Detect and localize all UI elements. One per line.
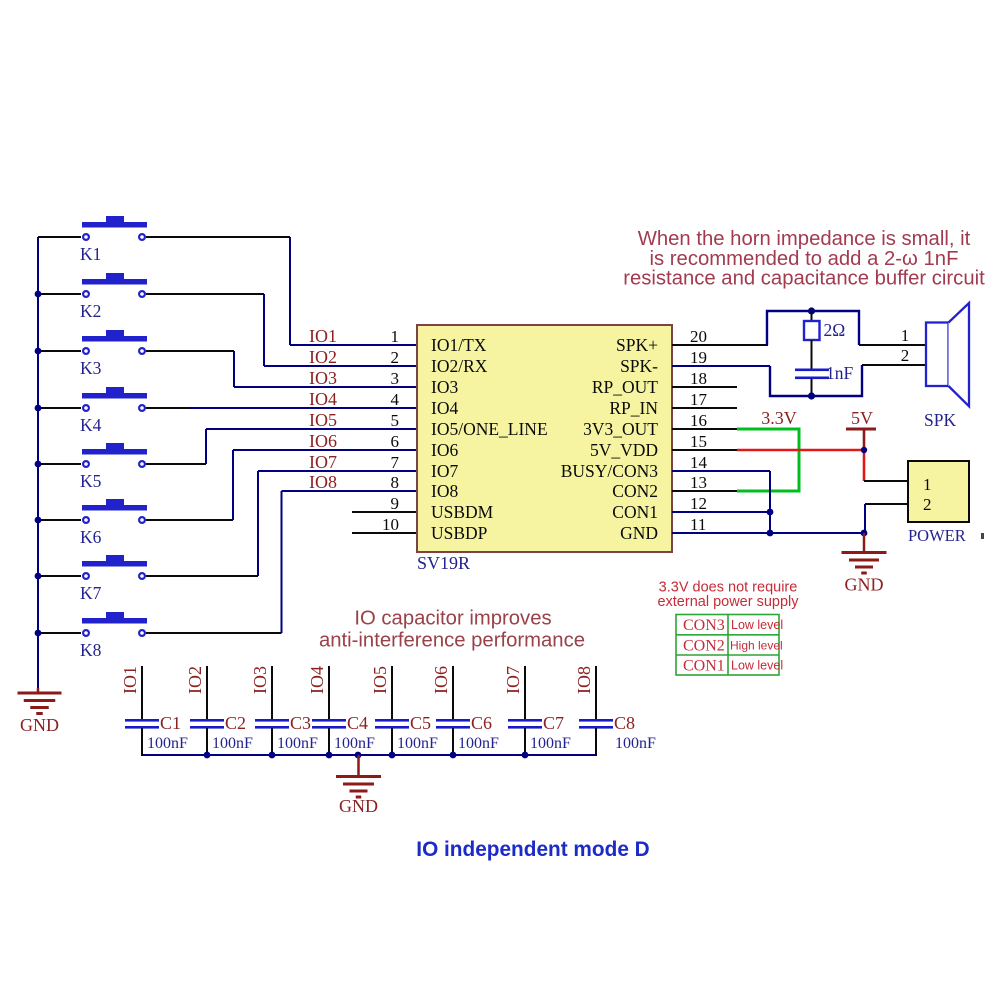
table CON levels [676,615,783,676]
svg-text:Low level: Low level [731,658,783,672]
svg-text:IO2: IO2 [309,347,337,367]
pin label IO5/ONE_LINE [431,419,548,439]
svg-text:IO7: IO7 [309,452,337,472]
svg-text:IO7: IO7 [503,666,523,694]
svg-text:GND: GND [845,575,884,595]
junction CON1 rail [767,509,774,516]
net label IO7 [309,452,337,472]
svg-text:17: 17 [690,390,708,409]
svg-text:When the horn impedance is sma: When the horn impedance is small, it [638,228,971,250]
svg-text:GND: GND [620,523,658,543]
svg-text:13: 13 [690,473,707,492]
power symbol 5V [846,408,876,429]
wire rail to K7 left terminal [38,575,81,577]
pin label RP_IN [609,398,658,418]
svg-text:100nF: 100nF [458,735,499,752]
pin label IO1/TX [431,335,487,355]
capacitor C5 [375,666,438,756]
svg-text:K5: K5 [80,471,102,491]
wire capacitor bottom rail [142,754,596,756]
svg-text:IO1: IO1 [309,326,337,346]
svg-text:3.3V: 3.3V [761,408,797,428]
svg-text:100nF: 100nF [397,735,438,752]
svg-text:11: 11 [690,515,706,534]
capacitor C1 [125,666,188,756]
svg-text:2: 2 [901,346,910,365]
pin number 9 [391,494,400,513]
junction riser GND rail [767,530,774,537]
svg-text:GND: GND [20,715,59,735]
svg-text:C1: C1 [160,713,181,733]
junction GND rail right [861,530,868,537]
svg-text:1: 1 [923,475,932,494]
svg-text:15: 15 [690,432,707,451]
svg-text:1: 1 [901,326,910,345]
junction 5V node [861,447,867,453]
svg-text:5V: 5V [851,408,873,428]
wire ground rail left [37,237,39,691]
junction rail K7 [35,573,42,580]
svg-text:RP_OUT: RP_OUT [592,377,658,397]
svg-text:IO5: IO5 [370,666,390,694]
pin label SPK+ [616,335,658,355]
wire rail to K1 left terminal [38,236,81,238]
wire riser CON3/CON1 to GND rail [769,471,771,533]
svg-text:SPK-: SPK- [620,356,658,376]
svg-text:IO2/RX: IO2/RX [431,356,488,376]
junction C2 rail [204,752,211,759]
net label IO4 vertical [307,666,327,694]
capacitor C3 [255,666,318,756]
svg-text:CON1: CON1 [612,502,658,522]
wire rail to K4 left terminal [38,407,81,409]
pin label 3V3_OUT [583,419,658,439]
svg-text:1nF: 1nF [826,363,854,383]
wire pin 13 stub CON2 [672,490,737,492]
pushbutton K3 [80,330,147,378]
speaker SPK [924,303,969,430]
note 3.3V power supply [657,580,799,611]
net label IO6 [309,431,337,451]
net label IO8 vertical [574,666,594,694]
svg-text:C2: C2 [225,713,246,733]
wire K7 to IO7 row [146,471,417,576]
wire rail to K8 left terminal [38,632,81,634]
svg-text:external power supply: external power supply [657,594,799,610]
net label IO8 [309,472,337,492]
junction C5 rail [389,752,396,759]
pin label RP_OUT [592,377,658,397]
capacitor C9 1nF [795,363,854,383]
svg-text:19: 19 [690,348,707,367]
pin number 2 [391,348,400,367]
svg-text:K7: K7 [80,583,102,603]
wire pin 16 stub 3V3_OUT [672,428,737,430]
junction C3 rail [269,752,276,759]
pin label CON2 [612,481,658,501]
svg-text:IO3: IO3 [309,368,337,388]
svg-text:10: 10 [382,515,399,534]
svg-text:100nF: 100nF [212,735,253,752]
pin number 14 [690,453,708,472]
junction rail K2 [35,291,42,298]
svg-text:5: 5 [391,411,400,430]
junction rail K4 [35,405,42,412]
svg-text:SPK: SPK [924,410,956,430]
capacitor C8 [579,666,656,756]
svg-text:USBDP: USBDP [431,523,488,543]
svg-text:SPK+: SPK+ [616,335,658,355]
wire K8 to IO8 row [146,491,417,633]
svg-text:K6: K6 [80,527,102,547]
net label IO1 [309,326,337,346]
svg-text:K3: K3 [80,358,102,378]
pin number 20 [690,327,707,346]
wire pin 19 SPK- [672,365,770,367]
wire pin 17 stub [672,407,737,409]
capacitor C7 [508,666,571,756]
svg-text:IO4: IO4 [309,389,337,409]
pin label IO4 [431,398,458,418]
svg-text:2: 2 [923,495,932,514]
svg-text:K8: K8 [80,640,102,660]
svg-text:IO4: IO4 [307,666,327,694]
svg-text:CON2: CON2 [612,481,658,501]
note mid annotation [319,608,585,652]
wire K4 to IO4 row [146,407,417,409]
svg-text:14: 14 [690,453,708,472]
wire pin 12 CON1 [672,511,770,513]
pin number 7 [391,453,400,472]
svg-text:4: 4 [391,390,400,409]
wire red 5V to 5V_VDD [737,430,864,481]
pin number 8 [391,473,400,492]
wire POWER pin2 to GND rail [865,504,908,533]
svg-text:anti-interference performance: anti-interference performance [319,630,585,652]
pin label IO3 [431,377,458,397]
svg-text:3: 3 [391,369,400,388]
pin number 19 [690,348,707,367]
svg-text:18: 18 [690,369,707,388]
wire K3 to IO3 row [146,351,417,387]
junction rail K8 [35,630,42,637]
svg-text:100nF: 100nF [334,735,375,752]
pin number 15 [690,432,707,451]
net label IO3 vertical [250,666,270,694]
pin number 1 [391,327,400,346]
net label IO5 [309,410,337,430]
svg-text:IO capacitor improves: IO capacitor improves [354,608,551,630]
svg-text:C8: C8 [614,713,635,733]
svg-text:CON1: CON1 [683,657,725,674]
svg-text:Low level: Low level [731,618,783,632]
capacitor C6 [436,666,499,756]
svg-text:K2: K2 [80,301,101,321]
net label IO5 vertical [370,666,390,694]
junction C4 rail [326,752,333,759]
svg-text:RP_IN: RP_IN [609,398,658,418]
svg-text:IO6: IO6 [309,431,337,451]
resistor R1 2ohm [804,311,845,340]
svg-text:100nF: 100nF [277,735,318,752]
svg-text:C6: C6 [471,713,492,733]
svg-text:100nF: 100nF [530,735,571,752]
wire RC loop bottom [770,365,862,396]
net label IO7 vertical [503,666,523,694]
svg-text:20: 20 [690,327,707,346]
pin number 5 [391,411,400,430]
net label IO6 vertical [431,666,451,694]
svg-text:C4: C4 [347,713,368,733]
connector POWER [908,461,984,545]
svg-text:6: 6 [391,432,400,451]
pin label CON1 [612,502,658,522]
svg-text:IO8: IO8 [309,472,337,492]
svg-text:resistance and capacitance buf: resistance and capacitance buffer circui… [623,268,985,290]
pin number 18 [690,369,707,388]
svg-text:BUSY/CON3: BUSY/CON3 [561,461,658,481]
wire to SPK pin 1 [859,326,926,345]
junction rail K6 [35,517,42,524]
svg-text:USBDM: USBDM [431,502,494,522]
svg-text:9: 9 [391,494,400,513]
svg-text:C5: C5 [410,713,431,733]
wire to SPK pin 2 [862,346,926,365]
wire pin 9 stub USBDM [352,511,417,513]
svg-text:1: 1 [391,327,400,346]
svg-text:8: 8 [391,473,400,492]
wire R1 to C9 [811,340,813,369]
svg-text:IO8: IO8 [574,666,594,694]
wire POWER pin1 [864,480,908,482]
pushbutton K4 [80,387,147,435]
note top annotation [623,228,985,290]
wire green 3V3_OUT to CON2 [737,429,799,491]
svg-text:CON2: CON2 [683,637,725,654]
junction C7 rail [522,752,529,759]
svg-text:7: 7 [391,453,400,472]
wire pin 18 stub [672,386,737,388]
net label IO2 [309,347,337,367]
wire pin 20 SPK+ [672,344,768,346]
pushbutton K5 [80,443,147,491]
wire rail to K5 left terminal [38,463,81,465]
pin number 10 [382,515,399,534]
wire pin 11 GND rail [672,532,866,534]
svg-text:CON3: CON3 [683,617,725,634]
svg-text:2Ω: 2Ω [824,320,846,340]
svg-text:3V3_OUT: 3V3_OUT [583,419,658,439]
svg-text:IO6: IO6 [431,440,458,460]
wire rail to K6 left terminal [38,519,81,521]
svg-text:100nF: 100nF [147,735,188,752]
wire RC loop top [767,311,859,345]
wire K6 to IO6 row [146,450,417,520]
wire pin 15 stub 5V_VDD [672,449,737,451]
ground GND right [842,533,887,595]
svg-text:IO8: IO8 [431,481,458,501]
wire C9 to bottom rail [811,379,813,396]
pushbutton K7 [80,555,147,603]
svg-text:IO6: IO6 [431,666,451,694]
pushbutton K1 [80,216,147,264]
pushbutton K2 [80,273,147,321]
junction RC bottom [808,392,815,399]
net label IO1 vertical [120,666,140,694]
net label IO3 [309,368,337,388]
pin number 13 [690,473,707,492]
svg-text:GND: GND [339,796,378,816]
svg-text:K1: K1 [80,244,101,264]
pin label USBDP [431,523,488,543]
pin label IO2/RX [431,356,488,376]
svg-text:IO2: IO2 [185,666,205,694]
capacitor C4 [312,666,375,756]
pin label 5V_VDD [590,440,658,460]
svg-text:K4: K4 [80,415,102,435]
svg-text:C7: C7 [543,713,564,733]
title IO independent mode D [416,838,649,861]
junction rail K3 [35,348,42,355]
pin label GND [620,523,658,543]
pin number 17 [690,390,708,409]
ground GND left [18,688,62,735]
svg-text:IO1: IO1 [120,666,140,694]
junction RC top [808,307,815,314]
svg-text:High level: High level [730,638,783,652]
svg-text:POWER: POWER [908,526,966,545]
junction C6 rail [450,752,457,759]
op-amp U1 SV19R IC body [417,325,672,573]
pin number 11 [690,515,706,534]
net label IO4 [309,389,337,409]
svg-text:C3: C3 [290,713,311,733]
svg-text:IO5/ONE_LINE: IO5/ONE_LINE [431,419,548,439]
pin label IO6 [431,440,458,460]
pin label BUSY/CON3 [561,461,658,481]
wire pin 10 stub USBDP [352,532,417,534]
svg-text:100nF: 100nF [615,735,656,752]
svg-text:5V_VDD: 5V_VDD [590,440,658,460]
pushbutton K6 [80,499,147,547]
svg-text:2: 2 [391,348,400,367]
wire rail to K2 left terminal [38,293,81,295]
svg-text:16: 16 [690,411,707,430]
wire rail to K3 left terminal [38,350,81,352]
pin label SPK- [620,356,658,376]
pin number 16 [690,411,707,430]
svg-text:IO1/TX: IO1/TX [431,335,487,355]
svg-text:IO4: IO4 [431,398,458,418]
svg-text:IO5: IO5 [309,410,337,430]
svg-text:IO independent mode D: IO independent mode D [416,838,649,861]
svg-text:IO3: IO3 [431,377,458,397]
pin number 4 [391,390,400,409]
pin number 12 [690,494,707,513]
wire K2 to IO2 row [146,294,417,366]
junction rail K5 [35,461,42,468]
svg-text:IO7: IO7 [431,461,458,481]
pin number 3 [391,369,400,388]
wire K5 to IO5 row [146,429,417,464]
ground GND center [336,755,381,816]
pin label IO8 [431,481,458,501]
svg-text:IO3: IO3 [250,666,270,694]
net label IO2 vertical [185,666,205,694]
pin number 6 [391,432,400,451]
junction GND stem rail [355,752,362,759]
pushbutton K8 [80,612,147,660]
svg-text:SV19R: SV19R [417,553,470,573]
capacitor C2 [190,666,253,756]
pin label USBDM [431,502,494,522]
wire K1 to IO1 row [146,237,417,345]
svg-text:12: 12 [690,494,707,513]
wire pin 14 BUSY/CON3 [672,470,770,472]
net label 3.3V [761,408,797,428]
pin label IO7 [431,461,458,481]
